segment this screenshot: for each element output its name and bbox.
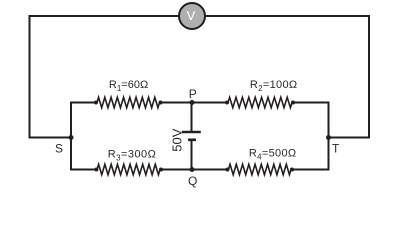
wire S branch vertical <box>70 102 72 171</box>
svg-text:Q: Q <box>188 174 197 188</box>
node P <box>190 100 195 105</box>
resistor R3 <box>94 164 163 174</box>
svg-text:R1=60Ω: R1=60Ω <box>109 79 148 93</box>
wire S stub <box>29 137 72 139</box>
wire left vertical <box>29 15 31 139</box>
wire top branch right <box>292 102 330 104</box>
wire right vertical <box>368 15 370 139</box>
svg-text:S: S <box>55 142 63 156</box>
resistor R1 <box>94 97 163 107</box>
wire top branch middle <box>160 102 229 104</box>
wire bottom branch middle <box>160 169 229 171</box>
svg-text:V: V <box>187 8 196 23</box>
svg-text:T: T <box>332 142 340 156</box>
resistor R4 <box>226 164 295 174</box>
wire T branch vertical <box>328 102 330 171</box>
svg-text:P: P <box>189 87 197 101</box>
voltmeter V <box>179 3 205 29</box>
resistor R2 <box>225 97 295 107</box>
battery B1 <box>182 103 201 170</box>
svg-text:R4=500Ω: R4=500Ω <box>249 147 297 161</box>
wire top branch left <box>70 102 97 104</box>
svg-text:R3=300Ω: R3=300Ω <box>108 149 157 163</box>
node T <box>326 135 331 140</box>
wire bottom branch left <box>70 169 97 171</box>
wire bottom branch right <box>291 169 330 171</box>
svg-text:50V: 50V <box>169 128 184 151</box>
svg-text:R2=100Ω: R2=100Ω <box>250 79 298 93</box>
wire top loop <box>30 15 370 17</box>
wire T stub <box>329 137 371 139</box>
node Q <box>190 167 195 172</box>
node S <box>69 135 74 140</box>
